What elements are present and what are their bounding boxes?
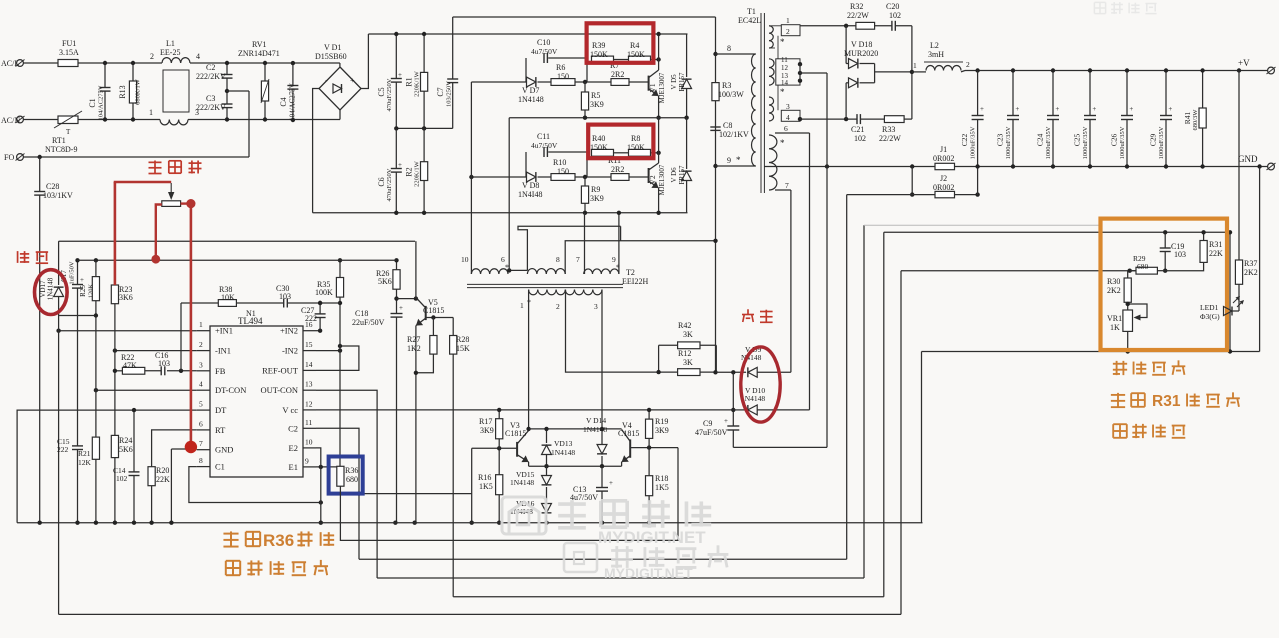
svg-text:+: + [399,304,403,312]
diode VD8 [527,172,536,182]
svg-text:DT: DT [215,405,227,415]
wire VR1 bottom [1127,331,1129,351]
svg-text:150: 150 [557,167,569,176]
wire C11 stub [525,152,527,177]
wire R23 col [114,304,116,523]
node R19 top [647,408,651,412]
node C5 bottom [394,126,398,130]
wire V2 emitter [658,188,660,213]
resistor R19 [648,410,650,419]
wire pin4 line [96,389,197,391]
svg-text:680: 680 [1137,262,1149,271]
node VD13 top [544,427,548,431]
wire HB bottom rail [313,212,688,214]
wire FB line [167,370,197,372]
svg-text:R1: R1 [405,77,414,86]
red text tiaodianya [148,161,161,163]
capacitor C26 [1126,71,1128,116]
svg-text:C25: C25 [1072,134,1081,147]
svg-text:RV1: RV1 [252,40,266,49]
svg-text:8: 8 [727,44,731,53]
wire T2 pin8 col [565,241,715,274]
svg-text:47K: 47K [123,361,137,370]
capacitor C13 [601,466,603,487]
svg-text:R37: R37 [1244,259,1257,268]
svg-text:R19: R19 [655,417,668,426]
node V1 collector top [656,32,660,36]
node R9 top [583,175,587,179]
svg-text:+: + [80,276,84,284]
node VD13 bottom [544,464,548,468]
transistor V4 C1815 [629,439,631,457]
node R17 top [497,408,501,412]
transformer T2 winding D [529,290,602,295]
svg-text:2: 2 [199,340,203,349]
wire pin9 [716,165,756,167]
svg-text:150: 150 [557,72,569,81]
svg-text:4u7/50V: 4u7/50V [531,47,558,56]
svg-text:4: 4 [199,380,203,389]
svg-text:104/AC275V: 104/AC275V [98,85,105,120]
node R29 left [1128,269,1132,273]
resistor R39 [592,56,614,63]
svg-text:ZNR14D471: ZNR14D471 [238,49,280,58]
red text duankai [747,309,749,314]
svg-text:1N4148: 1N4148 [551,448,575,457]
node C19 top [1163,230,1167,234]
resistor R10 [551,174,575,181]
svg-text:+IN2: +IN2 [280,326,298,336]
resistor R35 [336,278,343,298]
IC TL494 pin stubs and labels [197,330,210,332]
wire GND col pin7 [170,449,172,523]
red wire pot right [181,202,191,204]
T1 pins 1 2 box [781,25,800,36]
svg-text:4u7/50V: 4u7/50V [531,141,558,150]
wire L2 left [912,71,926,72]
wire pin16 stub [316,330,320,332]
svg-text:1000uF/35V: 1000uF/35V [1005,126,1012,159]
svg-text:+: + [350,76,355,85]
wire C21 to R33 [860,118,884,120]
red text chaidiao [17,251,19,263]
capacitor C21 [856,114,858,124]
svg-text:+: + [980,105,984,113]
svg-text:22K: 22K [156,475,170,484]
resistor R6 [551,79,575,86]
svg-text:R25: R25 [79,285,87,297]
svg-text:R4: R4 [630,41,639,50]
svg-text:103: 103 [158,359,170,368]
capacitor C30 [283,299,285,308]
wire R39 row [614,59,629,61]
node FB R38 junction [179,369,183,373]
svg-text:1000uF/35V: 1000uF/35V [1082,126,1089,159]
node J1 left [910,164,914,168]
wire faint 225 line [864,224,1101,226]
svg-text:22K: 22K [1209,249,1223,258]
wire T2 pin10 col [470,82,472,274]
svg-text:6: 6 [199,419,203,428]
capacitor C27 [319,303,321,314]
svg-text:2K2: 2K2 [1244,268,1258,277]
capacitor C6 [395,128,397,168]
wire right col 921 [921,352,923,523]
node R2 bottom [422,211,426,215]
resistor R2 [423,128,425,161]
svg-text:R6: R6 [556,63,565,72]
svg-text:22uF/50V: 22uF/50V [352,318,385,327]
diode VD16 [542,504,552,513]
svg-text:47uF/50V: 47uF/50V [695,428,728,437]
svg-text:470uF/250V: 470uF/250V [386,168,393,201]
svg-text:R5: R5 [591,91,600,100]
svg-text:*: * [780,87,785,97]
resistor J2 0R002 [935,191,955,197]
svg-text:3K9: 3K9 [655,426,669,435]
svg-text:NTC8D-9: NTC8D-9 [45,145,77,154]
wire R38 C30 line [181,302,284,304]
wire C1 jog [189,467,321,503]
svg-text:C2: C2 [288,423,298,433]
resistor R12 [659,371,678,373]
svg-text:104/AC275V: 104/AC275V [289,83,297,121]
resistor R37 [1238,71,1240,261]
node R13 top [131,61,135,65]
node VD5 bottom [684,116,688,120]
svg-text:1N4148: 1N4148 [47,277,55,300]
svg-text:3: 3 [199,360,203,369]
diode VD5 FR157 [686,34,688,77]
capacitor C7 [452,17,454,79]
svg-text:R21: R21 [78,449,91,458]
wire R11 to V2 base [629,176,649,178]
svg-text:+IN1: +IN1 [215,326,233,336]
red dot GND pin [185,441,197,453]
node E1 E2 tie [319,465,323,469]
svg-text:R8: R8 [631,134,640,143]
wire V5 emitter col [415,326,417,523]
svg-text:J2: J2 [940,174,947,183]
T1 pins 11-14 box [776,59,800,85]
node C5 top [394,32,398,36]
svg-text:222: 222 [57,445,69,454]
node C17 top [75,258,79,262]
svg-text:12K: 12K [78,458,92,467]
wire pin1 line [59,330,197,332]
node pin8 junction [713,52,717,56]
svg-text:C9: C9 [703,419,712,428]
wire VD7 to R6 [538,81,552,83]
wire T2 pin1 col [528,290,530,429]
diode VD17 [58,241,60,285]
transformer T2 core [467,283,623,285]
node R35 top [338,258,342,262]
terminal +V [1268,67,1275,74]
svg-text:R13: R13 [118,85,127,98]
wire V4 base line [630,447,678,449]
capacitor C4 [292,63,294,86]
terminal FO [17,154,24,161]
wire T2 pin9 col [618,213,620,274]
svg-text:T2: T2 [626,268,635,277]
svg-text:1N4148: 1N4148 [518,95,544,104]
node V4 base R19 [647,445,651,449]
svg-text:7: 7 [576,255,580,264]
capacitor C22 [977,71,979,116]
svg-text:680: 680 [346,475,358,484]
svg-text:+: + [1015,105,1019,113]
wire bridge plus [361,34,368,89]
svg-text:14: 14 [305,360,313,369]
wire pin4 row [800,118,857,120]
svg-text:+: + [398,161,402,169]
resistor R1 [423,34,425,72]
fuse FU1 [58,60,78,67]
capacitor C17 [77,260,79,284]
node C22 bottom [975,164,979,168]
node RV1 top [263,61,267,65]
svg-text:*: * [736,155,741,165]
svg-text:3K6: 3K6 [119,293,133,302]
wire R42 R12 right bracket [715,345,717,372]
svg-text:103/1KV: 103/1KV [43,191,73,200]
transformer T1 sec winding 3 [769,97,774,121]
resistor R32 [856,22,875,29]
resistor R24 [111,435,118,457]
red ellipse VD17 [35,270,68,315]
wire frame 596 [453,596,884,598]
wire pin11 col [316,428,359,559]
transistor V3 C1815 [516,442,518,457]
svg-text:R20: R20 [156,466,169,475]
wire pin6 [775,132,810,134]
capacitor C16 [160,366,162,375]
resistor R21 [92,437,99,459]
svg-text:C1815: C1815 [423,306,444,315]
svg-text:+: + [724,417,728,425]
wire VD18 bottom anode [845,83,847,119]
wire frame 559 [359,558,847,560]
svg-text:J1: J1 [940,145,947,154]
node C9 top [731,370,735,374]
svg-text:10K: 10K [221,293,235,302]
svg-text:MYDIGIT.NET: MYDIGIT.NET [598,528,706,547]
black arrow to pot [170,183,172,196]
node R8 right [656,151,660,155]
svg-text:14: 14 [781,79,789,87]
node C2 C3 junction [225,89,229,93]
wire R39 feed [586,58,588,82]
svg-text:C22: C22 [960,134,969,147]
node aux 493 junction [357,491,361,495]
inductor L2 3mH [926,65,961,70]
wire VD17 line [59,240,416,242]
transformer T2 winding B [527,269,565,274]
wire bridge top vertex [339,63,341,67]
svg-text:*: * [780,138,785,148]
node C27 line [318,301,322,305]
svg-text:9: 9 [727,156,731,165]
svg-text:R16: R16 [478,473,491,482]
resistor R13 [132,63,134,81]
svg-text:Φ3(G): Φ3(G) [1200,312,1220,321]
orange text gai da R36 [223,533,238,535]
wire R32 to C20 [875,25,892,27]
resistor R20 [148,467,155,486]
wire T2 pin2 col [566,290,659,373]
svg-text:AC/N: AC/N [1,116,20,125]
wire V1 collector [658,34,660,70]
svg-text:R17: R17 [479,417,492,426]
node VD16 bottom [544,521,548,525]
svg-text:R9: R9 [591,185,600,194]
svg-text:R27: R27 [407,335,420,344]
wire Vcc rail [316,409,733,411]
node C6 bottom [394,211,398,215]
svg-text:FR157: FR157 [678,72,686,92]
wire AC/N to RT1 [23,119,58,121]
svg-text:C23: C23 [995,134,1004,147]
node C2 top [225,61,229,65]
wire RT1 to L1 [78,119,160,121]
svg-text:V1: V1 [648,83,657,92]
svg-text:T: T [66,128,71,136]
wire RT to R20 [152,430,197,467]
wire pins tie [799,64,801,81]
LED LED1 [1223,310,1230,312]
svg-text:103: 103 [1174,250,1186,259]
svg-text:1: 1 [786,16,790,25]
capacitor C28 [39,157,41,192]
svg-text:680/3W: 680/3W [1192,109,1199,131]
node J2 right [975,192,979,196]
orange text gai da R31 [1111,394,1125,396]
svg-text:2: 2 [786,27,790,36]
svg-text:L1: L1 [166,39,175,48]
svg-text:7: 7 [199,439,203,448]
resistor R22 [115,370,123,372]
transformer T1 winding 6-7 [769,135,777,190]
capacitor C18 [396,299,398,314]
svg-text:C21: C21 [851,125,864,134]
svg-text:100K: 100K [315,288,333,297]
wire center tap [800,72,827,74]
svg-text:TL494: TL494 [238,316,263,326]
svg-text:4u7/50V: 4u7/50V [570,493,598,502]
node C19 bottom [1163,269,1167,273]
wire VD18 top anode [845,26,847,64]
svg-text:3: 3 [594,302,598,311]
svg-text:103/250V: 103/250V [445,81,452,107]
svg-text:3K9: 3K9 [590,100,604,109]
red box R40 R8 [588,125,653,159]
svg-text:10: 10 [305,437,313,446]
wire E2 jog [316,448,321,467]
svg-text:C1: C1 [88,98,97,107]
wire bridge bottom vertex [339,110,341,120]
wire R26 to V5 collector [397,298,416,300]
diode VD15 [546,466,548,475]
svg-text:10: 10 [461,255,469,264]
terminal AC/L [17,60,24,67]
wire pin1 row [800,25,856,27]
svg-text:V D6: V D6 [670,167,678,183]
svg-text:RT: RT [215,425,226,435]
resistor R23 [111,285,118,304]
terminal AC/N [17,116,24,123]
wire E1 col to rail [320,467,322,523]
svg-text:0R002: 0R002 [933,183,954,192]
capacitor C14 [133,410,135,472]
node V3 collector [526,427,530,431]
svg-text:1K5: 1K5 [479,482,493,491]
wire center tap col [826,73,828,447]
wire VD9 to pin7 [790,190,792,372]
transformer T1 primary coil [752,54,756,166]
svg-text:C1: C1 [215,462,225,472]
node VR1 wiper [1126,302,1130,306]
svg-text:3.15A: 3.15A [59,48,79,57]
svg-text:C6: C6 [377,177,386,186]
svg-text:L2: L2 [930,41,939,50]
svg-text:3mH: 3mH [928,50,944,59]
svg-text:GND: GND [1238,154,1258,164]
wire VD10 to pin6 [809,133,811,410]
svg-text:22/2W: 22/2W [847,11,869,20]
wire AC/L to fuse [23,62,58,64]
svg-text:R33: R33 [882,125,895,134]
terminal GND [1268,163,1275,170]
node R9 bottom rail [583,211,587,215]
svg-text:VR1: VR1 [1107,314,1122,323]
wire R10 to R11 [575,176,611,178]
svg-text:OUT-CON: OUT-CON [261,385,298,395]
svg-text:V2: V2 [648,175,657,184]
svg-text:GND: GND [215,445,233,455]
node midline V1 [656,116,660,120]
node snubber C21 tap [844,117,848,121]
wire right col 901 [900,271,902,615]
wire V3 base line [472,447,517,449]
wire right col 883 [883,232,885,597]
inductor L1 top winding [162,58,190,63]
node VD14 bottom [600,464,604,468]
node C1 top [103,61,107,65]
node C1 bottom [103,117,107,121]
svg-text:-: - [325,76,328,85]
capacitor C8 [710,126,720,128]
svg-text:E1: E1 [289,462,298,472]
node R27 top [431,315,435,319]
node R13 bottom [131,117,135,121]
svg-text:R41: R41 [1183,112,1192,125]
inductor L1 core box [163,70,189,112]
svg-text:150K: 150K [590,143,608,152]
node C13 bottom [600,521,604,525]
wire R36 bottom col [340,448,678,541]
wire R29 left node [1130,270,1136,272]
wire pin14 jog [316,346,359,370]
svg-text:C2: C2 [206,63,215,72]
orange text zui da dian ya [1113,423,1127,425]
svg-text:C7: C7 [436,87,445,96]
svg-text:1K: 1K [1110,323,1120,332]
svg-text:0R002: 0R002 [933,154,954,163]
wire V2 collector [658,118,660,163]
wire feedback sense col [339,260,341,466]
wire VD8 to R10 [538,176,552,178]
